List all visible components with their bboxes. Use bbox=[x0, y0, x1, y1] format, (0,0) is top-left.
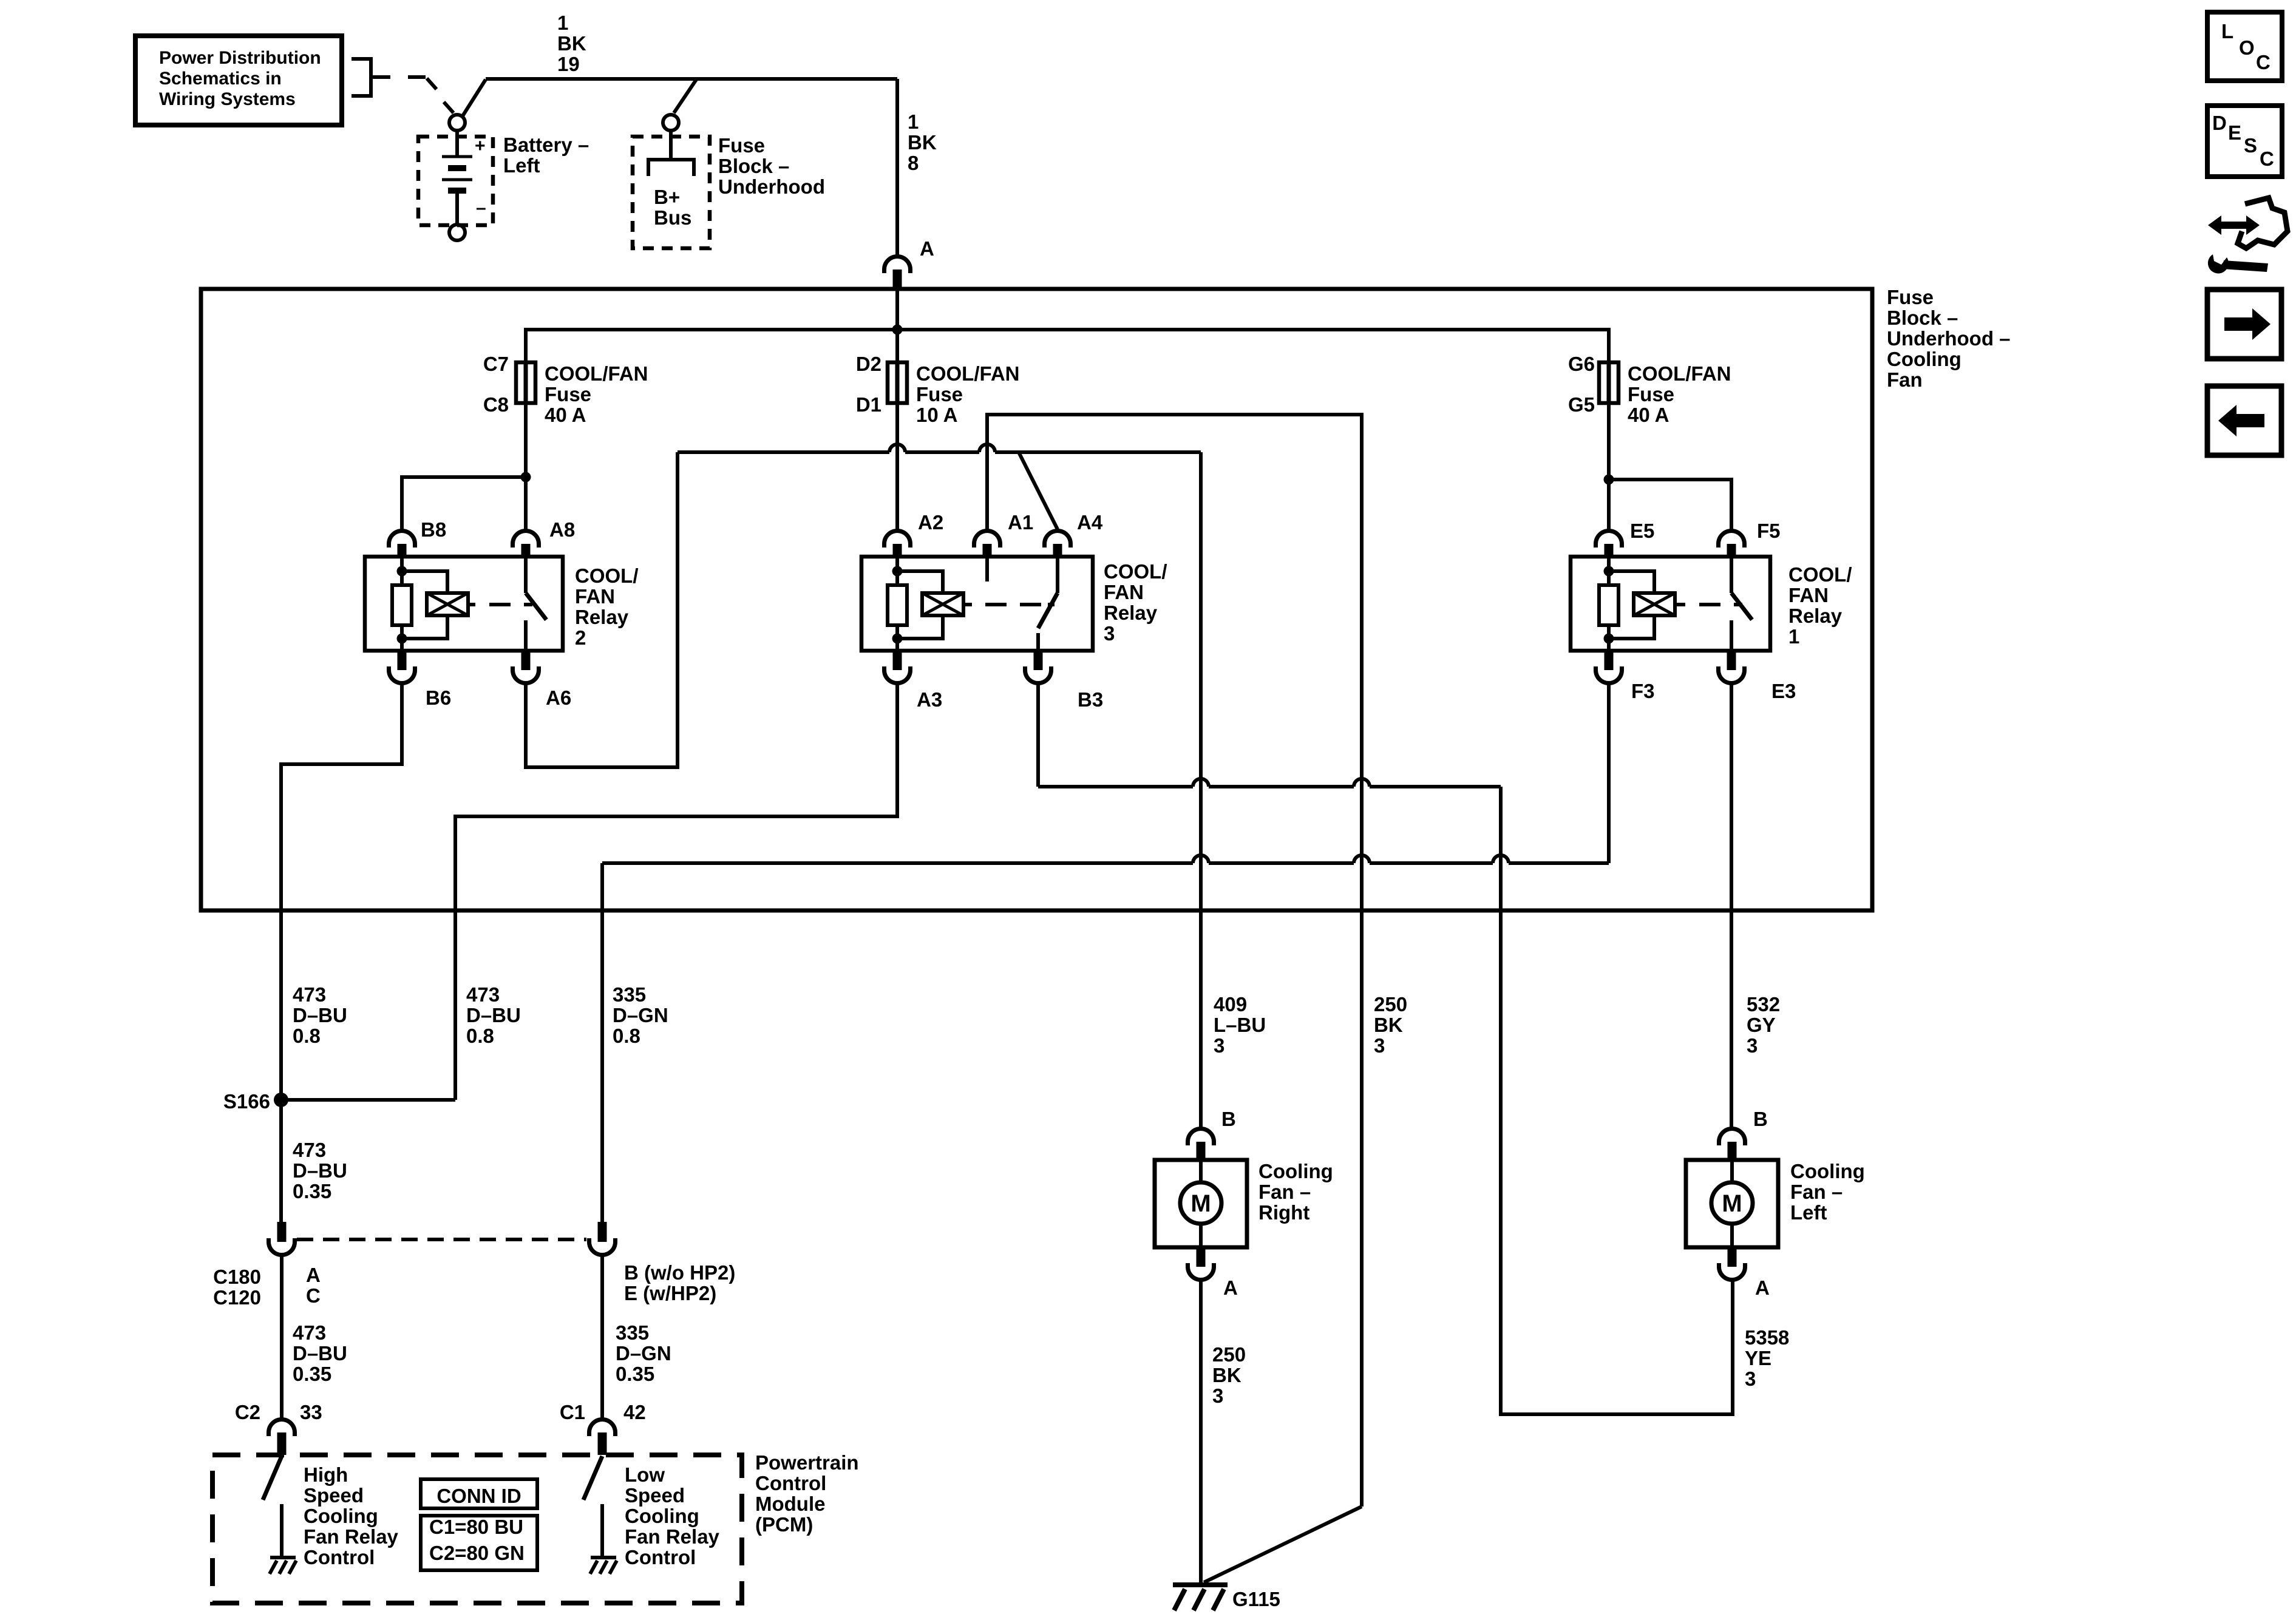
svg-text:FAN: FAN bbox=[575, 585, 615, 608]
label: 1 BK 8 bbox=[908, 110, 937, 174]
svg-text:L: L bbox=[2221, 20, 2233, 42]
svg-text:Wiring Systems: Wiring Systems bbox=[159, 89, 296, 109]
connector A4 bbox=[1045, 531, 1071, 557]
svg-text:Powertrain: Powertrain bbox=[755, 1451, 859, 1474]
icon: vehicle locator with wrench bbox=[2208, 198, 2288, 273]
labels: C180 C120 bbox=[213, 1266, 261, 1309]
svg-text:BK: BK bbox=[1212, 1364, 1241, 1386]
PCM high speed driver switch bbox=[263, 1456, 282, 1556]
svg-text:40 A: 40 A bbox=[1628, 404, 1669, 426]
labels: C7 C8 bbox=[483, 353, 509, 416]
svg-text:33: 33 bbox=[300, 1401, 322, 1423]
svg-text:Fan –: Fan – bbox=[1258, 1181, 1311, 1203]
svg-text:C2: C2 bbox=[235, 1401, 260, 1423]
svg-text:C8: C8 bbox=[483, 393, 509, 416]
connector F5 bbox=[1719, 531, 1745, 557]
svg-text:Fan –: Fan – bbox=[1790, 1181, 1843, 1203]
label: G115 bbox=[1232, 1588, 1280, 1610]
label: A8 bbox=[549, 518, 575, 541]
svg-text:1: 1 bbox=[557, 12, 568, 34]
relay 3 switch bbox=[987, 557, 1058, 651]
label: 473 D-BU 0.35 (lower) bbox=[293, 1321, 347, 1385]
inline connector dashed gang line bbox=[297, 1238, 586, 1241]
svg-text:409: 409 bbox=[1214, 993, 1247, 1015]
splice dot S166 bbox=[274, 1093, 288, 1107]
svg-text:Left: Left bbox=[1790, 1201, 1827, 1224]
svg-text:+: + bbox=[475, 136, 486, 156]
label: B (fan right) bbox=[1221, 1108, 1236, 1130]
connector A into fuse block bbox=[885, 257, 911, 290]
label: COOL/FAN Fuse 40 A (left) bbox=[545, 362, 648, 426]
wire: connector to PCM C1 bbox=[600, 1256, 604, 1419]
svg-text:Underhood –: Underhood – bbox=[1887, 327, 2011, 350]
svg-text:Block –: Block – bbox=[718, 155, 789, 177]
B+ bus bar symbol bbox=[648, 131, 694, 176]
icon: back arrow box bbox=[2207, 386, 2281, 455]
svg-text:B: B bbox=[1221, 1108, 1236, 1130]
cooling fan left motor M2 bbox=[1686, 1160, 1778, 1247]
svg-text:M: M bbox=[1722, 1190, 1742, 1217]
label: B8 bbox=[421, 518, 446, 541]
wire: D1 fuse to A2 bbox=[895, 403, 899, 531]
svg-text:3: 3 bbox=[1745, 1368, 1756, 1390]
label: 250 BK 3 (fan right) bbox=[1212, 1343, 1246, 1407]
switch blade into B+ bus bbox=[674, 80, 696, 113]
svg-text:D1: D1 bbox=[856, 393, 881, 416]
label: F3 bbox=[1631, 680, 1655, 702]
relay 3 box (COOL/FAN Relay 3) bbox=[861, 557, 1093, 651]
svg-text:Fuse: Fuse bbox=[916, 383, 963, 405]
label: 473 D-BU 0.8 (second) bbox=[466, 983, 521, 1047]
connector A8 bbox=[513, 531, 539, 557]
inline connector C180/C120 right half bbox=[589, 1222, 616, 1255]
label: Fuse Block - Underhood - Cooling Fan bbox=[1887, 286, 2011, 391]
icon: LOC box bbox=[2207, 12, 2282, 81]
label: High Speed Cooling Fan Relay Control bbox=[304, 1463, 399, 1568]
svg-text:Relay: Relay bbox=[575, 606, 629, 628]
svg-text:B8: B8 bbox=[421, 518, 446, 541]
svg-text:–: – bbox=[476, 198, 486, 218]
svg-text:Relay: Relay bbox=[1788, 605, 1843, 627]
svg-text:250: 250 bbox=[1374, 993, 1407, 1015]
wire: main feed down (1 BK 8) bbox=[895, 79, 899, 256]
label: F5 bbox=[1757, 520, 1781, 542]
svg-text:3: 3 bbox=[1374, 1034, 1385, 1057]
svg-text:Schematics in: Schematics in bbox=[159, 69, 282, 89]
fuse block underhood cooling fan outline box bbox=[201, 289, 1872, 910]
svg-text:2: 2 bbox=[575, 626, 586, 649]
svg-text:D: D bbox=[2212, 112, 2227, 134]
svg-text:O: O bbox=[2239, 36, 2255, 59]
label: COOL/FAN Relay 2 bbox=[575, 564, 639, 649]
junction dot: relay 2 feed split bbox=[521, 472, 531, 483]
ground G115 symbol bbox=[1173, 1585, 1228, 1610]
svg-text:D–BU: D–BU bbox=[293, 1159, 347, 1182]
wire: 250 BK diagonal to ground bbox=[1204, 1507, 1362, 1582]
svg-text:D–GN: D–GN bbox=[613, 1004, 668, 1026]
svg-text:BK: BK bbox=[1374, 1014, 1403, 1036]
svg-text:FAN: FAN bbox=[1104, 581, 1144, 603]
svg-text:G6: G6 bbox=[1568, 353, 1595, 375]
svg-text:3: 3 bbox=[1212, 1385, 1223, 1407]
svg-text:19: 19 bbox=[557, 53, 580, 75]
svg-text:E: E bbox=[2228, 121, 2241, 144]
svg-text:Speed: Speed bbox=[625, 1484, 685, 1507]
svg-text:F3: F3 bbox=[1631, 680, 1655, 702]
svg-text:Cooling: Cooling bbox=[625, 1505, 699, 1527]
connector E3 bbox=[1719, 651, 1745, 683]
label: COOL/FAN Fuse 40 A (right) bbox=[1628, 362, 1731, 426]
label: A3 bbox=[917, 688, 942, 711]
wire: E3 to cooling fan left B (532 GY) bbox=[1730, 683, 1733, 1129]
connector A of cooling fan left bbox=[1719, 1247, 1745, 1280]
relay 2 switch bbox=[526, 557, 546, 651]
svg-text:C180: C180 bbox=[213, 1266, 261, 1288]
label: A6 bbox=[546, 686, 571, 709]
svg-text:Fan Relay: Fan Relay bbox=[304, 1525, 399, 1548]
svg-text:B+: B+ bbox=[654, 186, 680, 208]
fuse block underhood dashed box bbox=[633, 137, 710, 248]
svg-text:B (w/o HP2): B (w/o HP2) bbox=[624, 1261, 735, 1284]
connector B6 bbox=[389, 651, 415, 683]
svg-text:A: A bbox=[1755, 1276, 1770, 1299]
inline connector C180/C120 left half bbox=[269, 1222, 295, 1255]
wire: S166 splice link bbox=[281, 1098, 455, 1102]
svg-text:0.8: 0.8 bbox=[613, 1025, 640, 1047]
svg-text:L–BU: L–BU bbox=[1214, 1014, 1266, 1036]
svg-text:Fan: Fan bbox=[1887, 368, 1923, 391]
svg-text:Cooling: Cooling bbox=[1258, 1160, 1333, 1182]
label: 335 D-GN 0.35 bbox=[616, 1321, 671, 1385]
relay 1 box (COOL/FAN Relay 1) bbox=[1571, 557, 1770, 651]
svg-text:D2: D2 bbox=[856, 353, 881, 375]
PCM dashed box bbox=[212, 1455, 742, 1603]
label: 1 BK 19 bbox=[557, 12, 586, 75]
svg-text:A8: A8 bbox=[549, 518, 575, 541]
svg-text:335: 335 bbox=[613, 983, 646, 1006]
fuse COOL/FAN 40A (C7/C8) bbox=[516, 362, 535, 403]
label: A4 bbox=[1077, 511, 1103, 534]
svg-text:C7: C7 bbox=[483, 353, 509, 375]
svg-text:COOL/FAN: COOL/FAN bbox=[916, 362, 1020, 385]
wire: A6 to A4 and cooling fan right feed bbox=[526, 444, 1201, 1129]
svg-text:0.35: 0.35 bbox=[616, 1363, 654, 1385]
label: battery polarity + - bbox=[475, 136, 486, 218]
B+ bus terminal circle bbox=[663, 115, 679, 131]
label: E3 bbox=[1771, 680, 1796, 702]
relay 1 switch bbox=[1731, 557, 1752, 651]
wire: B6 to high speed control drop bbox=[281, 683, 402, 1222]
switch blade to battery positive bbox=[427, 78, 453, 113]
svg-text:E5: E5 bbox=[1630, 520, 1654, 542]
connector A6 bbox=[513, 651, 539, 683]
svg-text:FAN: FAN bbox=[1788, 584, 1829, 606]
svg-text:3: 3 bbox=[1214, 1034, 1224, 1057]
wire: fan right to ground (250 BK) bbox=[1199, 1280, 1203, 1582]
svg-text:Control: Control bbox=[625, 1546, 696, 1568]
label: 532 GY 3 bbox=[1747, 993, 1780, 1057]
bus wire inside fuse block bbox=[526, 289, 1609, 362]
label: A (fan right) bbox=[1223, 1276, 1238, 1299]
label: B3 bbox=[1078, 688, 1103, 711]
svg-text:G5: G5 bbox=[1568, 393, 1595, 416]
relay 3 actuating dashes bbox=[963, 603, 1055, 606]
label: Cooling Fan - Left bbox=[1790, 1160, 1865, 1224]
svg-text:A6: A6 bbox=[546, 686, 571, 709]
label: 335 D-GN 0.8 bbox=[613, 983, 668, 1047]
connector A3 bbox=[885, 651, 911, 683]
svg-text:D–BU: D–BU bbox=[293, 1004, 347, 1026]
svg-text:BK: BK bbox=[557, 32, 586, 55]
wire: battery positive to main feed corner (1 BK 19) bbox=[463, 79, 897, 116]
label: Cooling Fan - Right bbox=[1258, 1160, 1333, 1224]
label: COOL/FAN Relay 1 bbox=[1788, 563, 1852, 648]
svg-text:0.35: 0.35 bbox=[293, 1363, 331, 1385]
cooling fan right motor M1 bbox=[1155, 1160, 1247, 1247]
svg-text:0.8: 0.8 bbox=[466, 1025, 494, 1047]
svg-text:G115: G115 bbox=[1232, 1588, 1280, 1610]
fuse COOL/FAN 10A (D2/D1) bbox=[888, 362, 907, 403]
svg-text:C1=80 BU: C1=80 BU bbox=[429, 1516, 523, 1538]
relay 2 coil bbox=[392, 557, 468, 651]
svg-text:335: 335 bbox=[616, 1321, 649, 1344]
connector A of cooling fan right bbox=[1188, 1247, 1214, 1280]
label: Low Speed Cooling Fan Relay Control bbox=[625, 1463, 720, 1568]
svg-text:Control: Control bbox=[304, 1546, 375, 1568]
svg-text:GY: GY bbox=[1747, 1014, 1776, 1036]
svg-text:A: A bbox=[306, 1264, 321, 1286]
svg-text:Underhood: Underhood bbox=[718, 175, 825, 198]
svg-text:1: 1 bbox=[908, 110, 919, 133]
svg-text:C120: C120 bbox=[213, 1286, 261, 1309]
wire: fuse C8 to relay 2 feed junction bbox=[524, 403, 528, 531]
relay 1 actuating dashes bbox=[1677, 603, 1742, 606]
svg-text:Battery –: Battery – bbox=[503, 134, 589, 156]
svg-text:A1: A1 bbox=[1008, 511, 1033, 534]
dashed wire from bracket to battery switch bbox=[408, 75, 426, 79]
label: 409 L-BU 3 bbox=[1214, 993, 1266, 1057]
junction dot: relay 1 feed split bbox=[1604, 475, 1614, 485]
svg-text:S: S bbox=[2244, 134, 2257, 157]
connector B of cooling fan left bbox=[1719, 1129, 1745, 1161]
labels: C1 42 bbox=[560, 1401, 646, 1423]
label: 250 BK 3 (upper) bbox=[1374, 993, 1407, 1057]
connector C1 into PCM bbox=[589, 1420, 616, 1456]
labels: C2 33 bbox=[235, 1401, 322, 1423]
svg-text:(PCM): (PCM) bbox=[755, 1513, 813, 1536]
svg-text:A: A bbox=[920, 237, 934, 260]
svg-text:A3: A3 bbox=[917, 688, 942, 711]
svg-text:1: 1 bbox=[1788, 625, 1799, 648]
svg-text:COOL/: COOL/ bbox=[1104, 560, 1167, 583]
labels: G6 G5 bbox=[1568, 353, 1595, 416]
svg-text:A2: A2 bbox=[918, 511, 943, 534]
svg-text:B3: B3 bbox=[1078, 688, 1103, 711]
label: COOL/FAN Relay 3 bbox=[1104, 560, 1167, 645]
PCM ground (high speed) bbox=[270, 1558, 296, 1574]
battery positive terminal circle bbox=[449, 115, 465, 131]
svg-text:5358: 5358 bbox=[1745, 1326, 1789, 1349]
wire: C180 to PCM C2 bbox=[280, 1256, 284, 1419]
svg-text:Cooling: Cooling bbox=[304, 1505, 378, 1527]
svg-text:8: 8 bbox=[908, 152, 919, 174]
label: E5 bbox=[1630, 520, 1654, 542]
reference box: Power Distribution Schematics in Wiring Systems bbox=[135, 36, 342, 125]
battery negative terminal circle bbox=[449, 225, 465, 240]
label: COOL/FAN Fuse 10 A bbox=[916, 362, 1020, 426]
svg-text:0.35: 0.35 bbox=[293, 1180, 331, 1202]
connector A2 bbox=[885, 531, 911, 557]
wire: F3 to low speed control drop bbox=[602, 683, 1609, 1222]
svg-text:High: High bbox=[304, 1463, 348, 1486]
svg-text:Control: Control bbox=[755, 1472, 826, 1494]
svg-text:Right: Right bbox=[1258, 1201, 1309, 1224]
wire: diagonal branch to A4 bbox=[1019, 452, 1058, 529]
PCM ground (low speed) bbox=[590, 1558, 617, 1574]
svg-text:Block –: Block – bbox=[1887, 307, 1958, 329]
connector C2 into PCM bbox=[269, 1420, 295, 1456]
svg-text:COOL/: COOL/ bbox=[1788, 563, 1852, 586]
svg-text:40 A: 40 A bbox=[545, 404, 586, 426]
svg-text:C1: C1 bbox=[560, 1401, 585, 1423]
label: A2 bbox=[918, 511, 943, 534]
svg-text:C: C bbox=[2260, 147, 2274, 170]
connector bracket on reference box bbox=[352, 59, 390, 96]
svg-text:D–GN: D–GN bbox=[616, 1342, 671, 1364]
wire: A3 to second control drop bbox=[455, 683, 897, 1100]
svg-text:E3: E3 bbox=[1771, 680, 1796, 702]
svg-text:Bus: Bus bbox=[654, 206, 691, 229]
svg-text:Fuse: Fuse bbox=[1887, 286, 1934, 308]
svg-text:Fuse: Fuse bbox=[545, 383, 591, 405]
labels: pins A C bbox=[306, 1264, 321, 1307]
svg-text:Left: Left bbox=[503, 154, 540, 177]
svg-text:42: 42 bbox=[623, 1401, 646, 1423]
battery dashed box bbox=[418, 137, 493, 225]
fuse COOL/FAN 40A (G6/G5) bbox=[1599, 362, 1618, 403]
label: B (fan left) bbox=[1753, 1108, 1768, 1130]
svg-text:E (w/HP2): E (w/HP2) bbox=[624, 1282, 716, 1304]
svg-text:F5: F5 bbox=[1757, 520, 1781, 542]
wire: A1 riser to 250 BK drop bbox=[987, 415, 1362, 1507]
connector A1 bbox=[974, 531, 1000, 557]
battery symbol: plates bbox=[442, 131, 472, 224]
svg-text:Cooling: Cooling bbox=[1790, 1160, 1865, 1182]
svg-text:Cooling: Cooling bbox=[1887, 348, 1961, 370]
svg-text:CONN ID: CONN ID bbox=[436, 1485, 521, 1507]
label: A1 bbox=[1008, 511, 1033, 534]
connector B3 bbox=[1025, 651, 1051, 683]
relay 2 actuating dashes bbox=[467, 603, 532, 606]
label: Battery - Left bbox=[503, 134, 589, 177]
connector F3 bbox=[1596, 651, 1622, 683]
wire: branch to B8 bbox=[402, 477, 526, 531]
svg-text:S166: S166 bbox=[223, 1090, 270, 1113]
svg-text:473: 473 bbox=[293, 1321, 326, 1344]
svg-text:3: 3 bbox=[1747, 1034, 1758, 1057]
PCM low speed driver switch bbox=[583, 1456, 602, 1556]
relay 3 coil bbox=[888, 557, 963, 651]
svg-text:Speed: Speed bbox=[304, 1484, 364, 1507]
svg-text:Fan Relay: Fan Relay bbox=[625, 1525, 720, 1548]
svg-text:532: 532 bbox=[1747, 993, 1780, 1015]
svg-text:B: B bbox=[1753, 1108, 1768, 1130]
label: B+ Bus bbox=[654, 186, 691, 229]
svg-text:COOL/FAN: COOL/FAN bbox=[545, 362, 648, 385]
svg-text:COOL/: COOL/ bbox=[575, 564, 639, 587]
svg-text:B6: B6 bbox=[426, 686, 451, 709]
svg-text:473: 473 bbox=[466, 983, 500, 1006]
svg-text:A4: A4 bbox=[1077, 511, 1103, 534]
label: 5358 YE 3 bbox=[1745, 1326, 1789, 1390]
labels: D2 D1 bbox=[856, 353, 881, 416]
svg-text:C: C bbox=[2256, 51, 2271, 73]
svg-text:473: 473 bbox=[293, 1139, 326, 1161]
svg-text:C2=80 GN: C2=80 GN bbox=[429, 1542, 525, 1564]
svg-text:250: 250 bbox=[1212, 1343, 1246, 1366]
wire: branch to F5 bbox=[1609, 480, 1731, 531]
svg-text:D–BU: D–BU bbox=[466, 1004, 521, 1026]
label: A bbox=[920, 237, 934, 260]
label: A (fan left) bbox=[1755, 1276, 1770, 1299]
connector B8 bbox=[389, 531, 415, 557]
svg-text:Power Distribution: Power Distribution bbox=[159, 48, 321, 68]
CONN ID table bbox=[421, 1479, 537, 1570]
svg-text:YE: YE bbox=[1745, 1347, 1771, 1369]
svg-text:Module: Module bbox=[755, 1493, 825, 1515]
connector B of cooling fan right bbox=[1188, 1129, 1214, 1161]
label: B6 bbox=[426, 686, 451, 709]
svg-text:COOL/FAN: COOL/FAN bbox=[1628, 362, 1731, 385]
junction dot: bus to main feed bbox=[892, 325, 903, 335]
label: 473 D-BU 0.8 (left) bbox=[293, 983, 347, 1047]
label: S166 bbox=[223, 1090, 270, 1113]
labels: pins B (w/o HP2) E (w/HP2) bbox=[624, 1261, 735, 1304]
label: 473 D-BU 0.35 (above C180) bbox=[293, 1139, 347, 1202]
label: Fuse Block - Underhood bbox=[718, 134, 825, 198]
svg-text:0.8: 0.8 bbox=[293, 1025, 321, 1047]
relay 2 box (COOL/FAN Relay 2) bbox=[365, 557, 563, 651]
icon: next arrow box bbox=[2207, 290, 2281, 359]
relay 1 coil bbox=[1599, 557, 1675, 651]
svg-text:10 A: 10 A bbox=[916, 404, 957, 426]
svg-text:Fuse: Fuse bbox=[1628, 383, 1674, 405]
svg-text:A: A bbox=[1223, 1276, 1238, 1299]
svg-text:473: 473 bbox=[293, 983, 326, 1006]
svg-text:D–BU: D–BU bbox=[293, 1342, 347, 1364]
wire: B3 to cooling fan left A (5358 YE) bbox=[1038, 683, 1733, 1414]
svg-text:M: M bbox=[1190, 1190, 1211, 1217]
svg-text:3: 3 bbox=[1104, 622, 1115, 645]
svg-text:BK: BK bbox=[908, 131, 937, 154]
svg-text:Fuse: Fuse bbox=[718, 134, 765, 157]
svg-text:C: C bbox=[306, 1284, 321, 1307]
svg-text:Relay: Relay bbox=[1104, 602, 1158, 624]
icon: DESC box bbox=[2207, 106, 2282, 177]
label: Powertrain Control Module (PCM) bbox=[755, 1451, 859, 1536]
wire: G5 fuse to relay 1 feed junction bbox=[1607, 403, 1611, 531]
svg-text:Low: Low bbox=[625, 1463, 665, 1486]
connector E5 bbox=[1596, 531, 1622, 557]
